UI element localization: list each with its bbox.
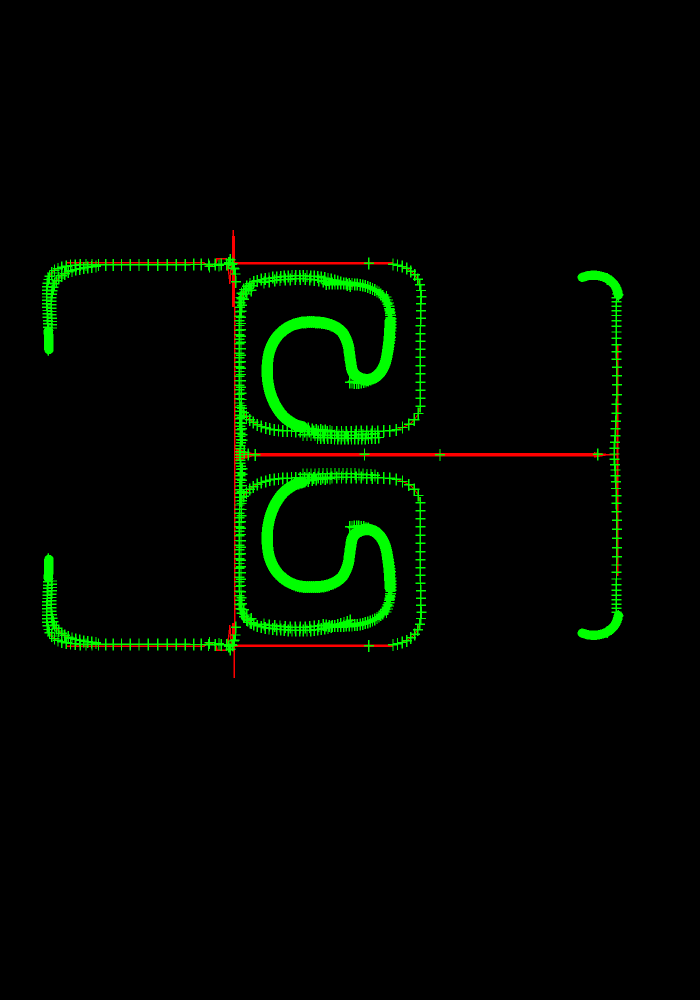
y-nullcline: bottom horizontal red line with saddle zigzag [67,625,393,650]
trajectory markers: limit-cycle top edge upper cell [234,270,355,308]
trajectory markers: S top arc lower [321,581,395,632]
trajectory markers: S-spiral upper [262,316,395,433]
trajectory markers: right bracket bottom hook [603,610,624,638]
trajectory markers: left bracket top [42,258,237,336]
left bracket bottom end blob [44,560,54,579]
trajectory markers: inner wrap upper [345,291,397,389]
S-spiral upper cell [267,322,390,427]
trajectory markers: left bracket bottom [42,573,237,651]
S top arc lower [326,587,390,626]
trajectory markers: top saddle entry [228,258,241,281]
trajectory markers: sweep merge upper [293,420,335,437]
trajectory markers: bottom saddle cluster [205,621,241,655]
trajectory markers: S-spiral lower [262,477,395,594]
trajectory markers: outer loop lower cell [237,472,426,651]
blob tail upper [47,350,49,355]
trajectory markers: outer loop upper cell [237,258,426,437]
blob tail lower [47,554,49,559]
trajectory markers: S top arc upper [321,277,395,328]
thin red trajectory curves (limit cycles, spirals, manifolds) [47,264,617,645]
sweep merge upper [296,425,330,431]
trajectory marker on bottom line [364,640,374,652]
sweep merge lower [296,478,330,484]
left bracket top end blob [44,331,54,350]
hook nub lower [579,633,585,635]
trajectory markers: left column companion upper [236,284,256,446]
x-nullcline: left vertical red line [233,230,235,678]
trajectory markers: left bracket companion bottom [47,575,102,649]
trajectory markers: left bracket companion top [47,261,102,335]
trajectory markers: shared left column [235,280,258,629]
trajectory markers: merged row bottom band upper [298,428,380,441]
trajectory markers: top saddle cluster [205,254,241,288]
middle horizontal red line (heteroclinic) with end wedges [236,449,617,462]
trajectory markers: left column companion lower [236,463,256,625]
trajectory markers: second row bottom band lower [259,618,328,633]
trajectory markers: second row top band upper [259,273,328,288]
trajectory markers: right bracket top hook [603,273,624,301]
right bracket top hook [582,275,618,295]
green trajectory connector lines [47,264,617,645]
trajectory markers: right bracket column [609,288,622,618]
right vertical red line segment [617,345,619,576]
trajectory marker on top line [364,258,374,270]
hook nub upper [579,275,585,277]
trajectory markers: bottom saddle entry [228,629,241,652]
S top arc upper [326,283,390,322]
trajectory markers: limit-cycle bottom edge lower cell [234,599,355,637]
S-spiral lower cell [267,482,390,587]
trajectory markers: sweep merge lower [293,473,335,490]
right bracket bottom hook [582,616,618,636]
trajectory markers: merged row top band lower [298,468,380,481]
trajectory markers: inner wrap lower [345,521,397,619]
inner wrap lower [349,526,392,612]
trajectory markers: extra outer row upper cell [313,432,384,445]
inner wrap upper [349,297,392,383]
trajectory markers: middle heteroclinic line [240,446,603,460]
y-nullcline: top horizontal red line with saddle zigzag [67,259,393,284]
